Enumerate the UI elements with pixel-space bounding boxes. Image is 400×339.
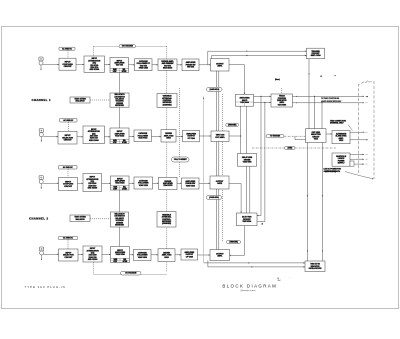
wire switching multi to delay line box (left) xyxy=(240,106,242,153)
svg-text:o: o xyxy=(367,96,368,98)
wire from line1 down right of column xyxy=(260,96,262,215)
wire E3 pin 1 xyxy=(350,154,364,156)
block GRATICULE LIGHTS POWER SUPPLY xyxy=(332,153,350,166)
input connector CH1 -INPUT xyxy=(39,129,58,142)
label GAIN pill below CH1 output amp xyxy=(207,87,223,91)
switch label AC GND DC (row B) xyxy=(60,119,78,123)
wire millivolts box down to amp B xyxy=(119,107,121,128)
svg-text:V243 V253: V243 V253 xyxy=(139,184,148,187)
block INPUT AMPLIFIER (CH2 -) xyxy=(111,247,130,263)
svg-text:SUPPLY: SUPPLY xyxy=(338,162,346,164)
wire trigger pickoff line 1 xyxy=(208,50,307,52)
wire millivolts box CH2 down to amp D xyxy=(119,227,121,247)
wire attenuator to amplifier A xyxy=(104,64,110,66)
svg-text:V343 V353: V343 V353 xyxy=(138,256,147,259)
svg-text:GATE: GATE xyxy=(217,182,223,185)
block DELAY LINE DRIVER xyxy=(238,154,257,167)
connector bracket outline (plug-in / mainframe boundary) xyxy=(359,81,365,173)
svg-text:V343 V353: V343 V353 xyxy=(243,161,252,164)
wire D5 to D6 xyxy=(175,254,181,256)
svg-text:AC GND DC: AC GND DC xyxy=(62,47,73,50)
block SWITCHING MULTI xyxy=(236,94,254,106)
block VARIABLE ATTEN (CH2) xyxy=(157,212,176,228)
svg-text:+: + xyxy=(335,75,336,77)
block DRIVER AMPL (CH1 -) xyxy=(161,130,176,142)
block INPUT ATTENUATOR (CH1 +) xyxy=(84,56,104,72)
small aux box on E3 xyxy=(350,161,354,166)
wire switching multi to trace position box (1) xyxy=(254,95,272,97)
wire trace position to pin lower xyxy=(293,102,364,104)
wire C6 to C7 xyxy=(199,182,210,184)
block INPUT SELECTOR CIRCUIT (CH1 -) xyxy=(58,131,77,144)
wire pickoff box to CH2 output amp xyxy=(230,226,245,256)
wire dashed AC-GND-DC to coupling C xyxy=(67,169,69,178)
svg-text:CIRCUIT: CIRCUIT xyxy=(65,257,74,259)
label CH 1 VOLTS/CM pill xyxy=(119,45,136,48)
svg-text:AC GND DC: AC GND DC xyxy=(63,237,74,240)
block TEST ATTEN BALANCE (CH2) xyxy=(70,215,90,222)
svg-text:(GAIN ADJ): (GAIN ADJ) xyxy=(210,88,220,91)
svg-text:CIRCUIT: CIRCUIT xyxy=(64,66,73,68)
svg-text:D4: D4 xyxy=(277,278,279,280)
svg-text:PULL TO INVERT: PULL TO INVERT xyxy=(174,159,187,161)
label TO TRIGGER pill xyxy=(266,135,284,138)
wire trigger box down to CRT circuit box xyxy=(308,59,310,129)
wire E3 pin 2 xyxy=(350,158,364,160)
divider inside switching multi xyxy=(236,101,254,103)
wire B4 to B5 xyxy=(152,135,162,137)
block OUTPUT GATE (CH2) xyxy=(210,176,229,189)
svg-text:V284 V294: V284 V294 xyxy=(186,184,195,187)
wire amp A down to millivolts box xyxy=(119,73,121,94)
wire dashed volts/cm link horizontal CH1 xyxy=(94,45,167,47)
svg-text:B363: B363 xyxy=(165,257,169,259)
wire dashed trigger linkage x=223 xyxy=(222,94,224,242)
wire dashed linkage x=179 xyxy=(179,88,181,178)
svg-text:V523: V523 xyxy=(339,140,343,142)
block SOURCE FOLLOWER (CH1) xyxy=(135,59,153,71)
block SOURCE FOLLOWER (CH1 -) xyxy=(134,130,152,142)
svg-text:CH 2 VOLTS/CM: CH 2 VOLTS/CM xyxy=(126,273,138,275)
wire corner into CRT box lower input xyxy=(295,136,306,140)
svg-text:B163 B164: B163 B164 xyxy=(163,67,172,70)
label GAIN pill below CH2 output gate xyxy=(207,196,222,200)
block PHASE INVERTER (CH1) xyxy=(182,59,199,71)
svg-text:OUT AMPL: OUT AMPL xyxy=(216,136,226,139)
svg-text:(GND): (GND) xyxy=(288,148,293,150)
wire drop from trigger line1 to A6-A7 wire xyxy=(207,51,209,65)
wire dashed AC-GND-DC to coupling A xyxy=(67,50,69,58)
wire C7 to pickoff box top xyxy=(229,184,241,214)
block INPUT SELECTOR CIRCUIT (CH2 -) xyxy=(59,249,79,261)
svg-text:(6mv): (6mv) xyxy=(275,79,280,81)
block INPUT COUPLING CIRCUIT (CH1 +) xyxy=(59,58,76,70)
wire switching multi to delay line box (right) xyxy=(246,106,248,153)
svg-text:BLOCK DIAGRAM: BLOCK DIAGRAM xyxy=(222,284,277,289)
svg-text:STEP: STEP xyxy=(114,188,118,190)
wire dashed test atten bal to mid box CH2 xyxy=(90,218,111,220)
svg-text:B263: B263 xyxy=(167,138,171,140)
block CRT GRID SELECTOR xyxy=(306,129,327,143)
svg-text:V474 V484: V474 V484 xyxy=(278,103,286,106)
block OUTPUT CF (CH1 -) xyxy=(183,130,200,142)
wire C1 to C2 xyxy=(78,182,84,184)
switch label AC GND DC (row C) xyxy=(59,166,78,170)
svg-text:6: 6 xyxy=(321,76,322,78)
svg-text:(GANGED): (GANGED) xyxy=(162,222,171,225)
svg-text:(GANGED): (GANGED) xyxy=(163,103,172,106)
wire B6 to B7 xyxy=(199,135,211,137)
svg-text:OSCILLOSCOPE: OSCILLOSCOPE xyxy=(309,268,322,270)
svg-text:AND X1000: AND X1000 xyxy=(90,68,100,71)
wire E1 down to connector circuit box (right) xyxy=(322,143,324,262)
wire dashed AC-GND-DC to coupling B xyxy=(67,122,69,131)
wire pointer to E2 xyxy=(348,125,353,131)
wire C4 to C5 xyxy=(153,182,159,184)
block SOURCE FOLLOWER (CH2 -) xyxy=(134,250,152,261)
wire D2 to D3 xyxy=(102,253,111,255)
wire E1 down to connector circuit box (left) xyxy=(307,143,309,262)
wire B2 to B3 xyxy=(104,136,110,138)
svg-text:NETWORK: NETWORK xyxy=(115,225,124,227)
block INPUT AMPLIFIER (CH1 -) xyxy=(110,128,129,144)
wire A3 to A4 xyxy=(129,64,135,66)
block DRIVER AMPL (CH2 -) xyxy=(158,249,175,262)
wire E3 pin 3 xyxy=(354,163,364,165)
wire A4 to A5 xyxy=(152,64,158,66)
block PHASE INVERTER (CH2) xyxy=(182,178,200,189)
svg-text:CH 1 VOLTS/CM: CH 1 VOLTS/CM xyxy=(122,46,134,48)
svg-text:INTERNAL ONLY: INTERNAL ONLY xyxy=(330,122,344,125)
connector pin tails xyxy=(366,95,368,97)
svg-text:V513: V513 xyxy=(314,138,318,140)
block SOURCE FOLLOWER (CH2) xyxy=(134,177,153,189)
svg-text:V124 V134: V124 V134 xyxy=(115,134,125,137)
label TRIGGER pill lower xyxy=(227,240,241,243)
wire dash-dot ground line xyxy=(252,147,336,149)
wire drop from trigger line2 into output amp top xyxy=(211,56,213,59)
label PULL TO INVERT pill xyxy=(172,157,190,162)
wire E1 to E2 xyxy=(326,133,332,135)
arrowheads on trigger pickoff lines xyxy=(246,50,248,51)
wire D6 to CH2 output amp xyxy=(198,254,211,256)
svg-text:(GAIN ADJ): (GAIN ADJ) xyxy=(210,196,220,199)
block OUTPUT CF (CH2 -) xyxy=(181,249,198,260)
svg-text:AMPL: AMPL xyxy=(218,255,224,258)
svg-text:AND X1000: AND X1000 xyxy=(88,187,98,190)
label TRIGGER pill upper xyxy=(226,123,239,126)
wire 6.3V curve to connector xyxy=(345,172,372,179)
block TRACE POSITION INDICATOR AMPL xyxy=(271,94,293,107)
wire trace position to pin upper xyxy=(293,95,364,97)
wire B5 to B6 xyxy=(176,135,183,137)
wire into pickoff right edge lower xyxy=(257,221,265,223)
wire A5 to A6 xyxy=(177,64,182,66)
input connector CH2 -INPUT xyxy=(40,247,59,260)
block INPUT AMPLIFIER (CH2) xyxy=(111,176,130,190)
wire coupling to attenuator A xyxy=(76,64,84,66)
svg-text:STEP: STEP xyxy=(114,261,118,263)
arrowheads line2 xyxy=(251,266,253,267)
wire dashed test atten bal to mid box CH1 xyxy=(90,99,110,101)
wire vert sig out dashed x=204 xyxy=(203,97,205,263)
svg-text:TO TRIGGER: TO TRIGGER xyxy=(270,136,281,138)
wire C2 to C3 xyxy=(102,182,111,184)
svg-text:CHANNEL 1: CHANNEL 1 xyxy=(32,98,51,102)
wire vert sig out long line 1 xyxy=(204,262,305,264)
wire B7 join to delay feed xyxy=(229,135,241,137)
block INPUT ATTENUATOR (CH2 -) xyxy=(83,246,102,262)
block MILLIVOLTS/CM SWITCH (CH1) xyxy=(110,93,129,107)
block INPUT COUPLING CIRCUIT (CH2 +) xyxy=(59,178,78,191)
wire D1 to D2 xyxy=(78,253,83,255)
svg-text:AMPL V414: AMPL V414 xyxy=(311,54,321,57)
wire long ganged switch linkage vertical xyxy=(166,46,168,271)
input connector CH1 +INPUT xyxy=(39,57,59,70)
svg-text:AC GND DC: AC GND DC xyxy=(63,166,74,169)
block TRIGGER PICKOFF AMPL xyxy=(307,48,325,59)
svg-text:V454 V464: V454 V464 xyxy=(241,101,250,104)
divider2 inside switching multi xyxy=(244,102,246,106)
wire short dash above trace position box xyxy=(281,88,283,94)
svg-text:V84 V94: V84 V94 xyxy=(187,66,194,69)
block INPUT ATTENUATOR (CH2 +) xyxy=(83,174,102,192)
wire E2 pin 2 xyxy=(350,139,368,141)
svg-text:CIRCUIT: CIRCUIT xyxy=(64,186,73,188)
block INPUT AMPLIFIER (CH1) xyxy=(110,58,129,73)
svg-text:(TRIGGER): (TRIGGER) xyxy=(230,242,239,244)
wire vert sig out long line 2 xyxy=(208,261,305,267)
svg-text:AC GND DC: AC GND DC xyxy=(64,119,75,122)
wire from line2 down right of column xyxy=(264,103,266,222)
wire line1 branch down into CRT box xyxy=(314,96,316,128)
svg-text:TYPE 3A3 PLUG-IN: TYPE 3A3 PLUG-IN xyxy=(25,285,66,289)
svg-text:STEP: STEP xyxy=(113,71,117,73)
svg-text:V143 V153: V143 V153 xyxy=(139,137,148,140)
block MILLIVOLTS/CM SWITCH (CH2) xyxy=(111,212,129,227)
svg-text:CF V184: CF V184 xyxy=(188,137,195,140)
svg-text:BALANCE: BALANCE xyxy=(76,100,86,103)
block INDICATOR OSCILLOSCOPE CONNECTOR xyxy=(305,261,325,272)
svg-text:NETWORK: NETWORK xyxy=(115,105,124,107)
svg-text:THIS CKT IN: THIS CKT IN xyxy=(311,264,321,266)
block ALTERNATE SLAVE SYNC AMPL xyxy=(332,131,350,144)
block INPUT ATTENUATOR (CH1 -) xyxy=(83,126,104,144)
block DRIVER AMPLIFIER (CH2) xyxy=(159,177,178,189)
wire delay box down to pickoff box (left) xyxy=(246,166,248,213)
wire A6 to output amp CH1 xyxy=(199,64,211,66)
switch label AC GND DC (row A) xyxy=(59,47,75,50)
wire output amp CH1 to switching multi xyxy=(229,65,245,95)
wire into pickoff right edge xyxy=(257,215,261,217)
wire D4 to D5 xyxy=(151,254,158,256)
wire B3 to B4 xyxy=(129,135,134,137)
wire amp C down to millivolts box CH2 xyxy=(119,190,121,212)
svg-text:V393 V394: V393 V394 xyxy=(243,220,252,223)
svg-text:(TRIGGER): (TRIGGER) xyxy=(228,124,237,126)
wire trunk output-amp CH1 to CH2 (right) xyxy=(218,71,220,250)
wire dash-dot trigger out to CRT box xyxy=(284,135,306,137)
svg-text:STEP: STEP xyxy=(113,142,117,144)
input connector CH2 +INPUT xyxy=(39,176,58,189)
svg-text:CIRCUIT: CIRCUIT xyxy=(64,140,73,142)
svg-text:AND X1000: AND X1000 xyxy=(89,139,99,142)
wire dashed AC-GND-DC to coupling D xyxy=(67,240,69,249)
wire delay box down to pickoff box (right) xyxy=(249,166,251,213)
svg-text:AMPL: AMPL xyxy=(218,65,224,68)
wire dashed volts/cm link CH2 xyxy=(94,262,167,274)
block VERT SIG OUT AMPL xyxy=(211,131,229,142)
wire trunk output-amp CH1 to CH2 (left) xyxy=(216,71,218,250)
wire line2 branch down into CRT box xyxy=(321,103,323,129)
block OUTPUT AMPL (CH1) xyxy=(211,59,230,71)
label GND pill xyxy=(285,146,296,149)
svg-text:V264 V274: V264 V274 xyxy=(164,184,173,187)
wire C3 to C4 xyxy=(129,182,134,184)
wire switching multi to trace position box (2) xyxy=(254,102,272,104)
svg-text:GRID LINE: GRID LINE xyxy=(139,68,149,70)
block VARIABLE ATTEN (CH1) xyxy=(157,94,177,108)
svg-text:V24 V34: V24 V34 xyxy=(116,64,124,67)
svg-text:V224 V234: V224 V234 xyxy=(116,182,126,185)
svg-text:CHANNEL 2: CHANNEL 2 xyxy=(29,216,48,220)
wire volts/cm linkage CH1 (to attenuator) xyxy=(93,46,95,56)
wire E2 pin 1 xyxy=(350,131,365,133)
block OUTPUT AMPL (CH2) xyxy=(210,250,230,261)
block DRIVER AMPLIFIER (CH1) xyxy=(158,59,177,70)
block DELAYED TRIGGER PICKOFF xyxy=(236,213,257,226)
svg-text:BALANCE: BALANCE xyxy=(76,218,86,221)
svg-text:V324 V334: V324 V334 xyxy=(116,253,126,256)
svg-text:AND X1000: AND X1000 xyxy=(88,258,98,261)
wire B1 to B2 xyxy=(77,136,83,138)
svg-text:CF V384: CF V384 xyxy=(186,255,193,258)
block TEST ATTEN BALANCE (CH1) xyxy=(70,97,90,103)
label CH 2 VOLTS/CM pill xyxy=(121,271,142,275)
switch label AC GND DC (row D) xyxy=(59,236,78,239)
wire trigger pickoff line 2 xyxy=(212,55,307,57)
wire D3 to D4 xyxy=(130,254,134,256)
arrowheads line1 xyxy=(248,262,250,263)
wire C5 to C6 xyxy=(177,182,182,184)
svg-text:(lightweight version): (lightweight version) xyxy=(240,289,255,292)
